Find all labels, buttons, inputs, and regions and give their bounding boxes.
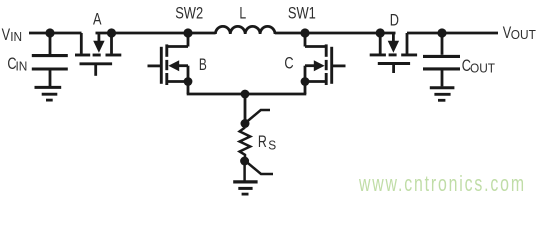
svg-text:OUT: OUT bbox=[511, 28, 537, 42]
svg-text:SW2: SW2 bbox=[175, 4, 203, 23]
svg-text:A: A bbox=[93, 10, 101, 29]
svg-text:L: L bbox=[239, 5, 246, 23]
svg-text:R: R bbox=[258, 133, 267, 151]
svg-text:OUT: OUT bbox=[470, 61, 496, 75]
svg-text:www.cntronics.com: www.cntronics.com bbox=[358, 173, 524, 197]
svg-text:S: S bbox=[268, 138, 276, 152]
svg-text:C: C bbox=[284, 54, 293, 73]
svg-text:IN: IN bbox=[10, 30, 22, 44]
svg-text:B: B bbox=[199, 56, 207, 75]
svg-text:D: D bbox=[390, 11, 399, 30]
svg-text:SW1: SW1 bbox=[288, 4, 316, 23]
svg-text:V: V bbox=[2, 25, 10, 44]
svg-text:IN: IN bbox=[16, 59, 28, 73]
